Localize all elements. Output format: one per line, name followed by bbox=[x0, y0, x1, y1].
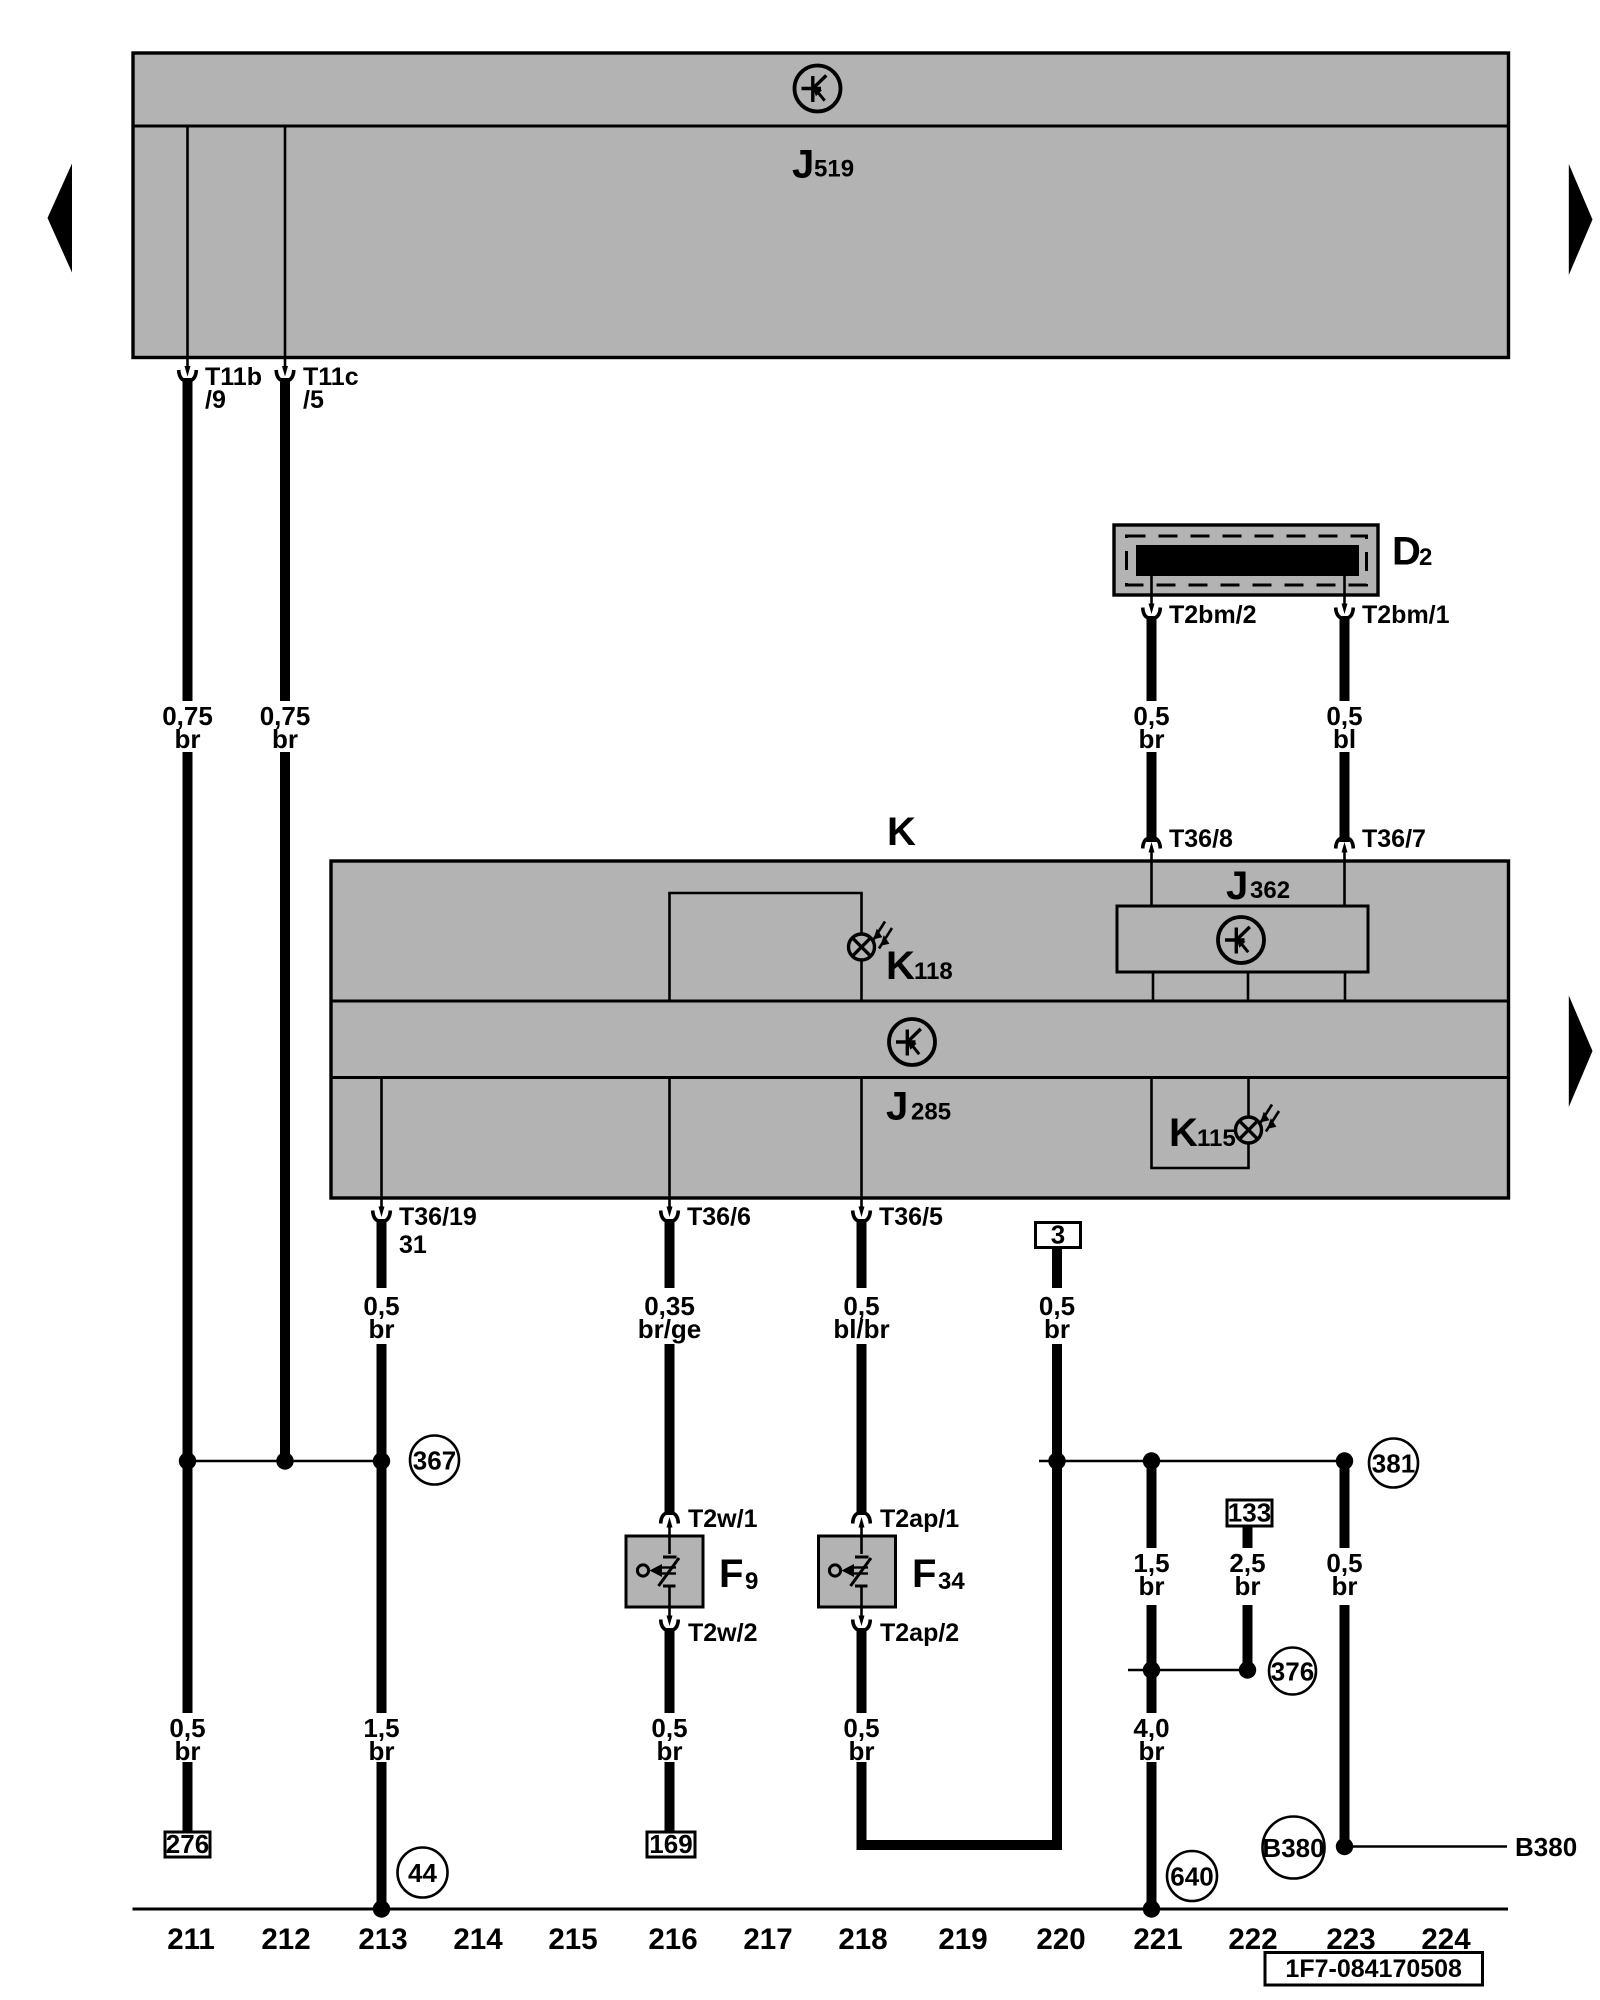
ground designation box 276 bbox=[165, 1829, 210, 1859]
svg-text:211: 211 bbox=[167, 1923, 215, 1956]
junction circle 367 bbox=[410, 1436, 459, 1485]
svg-text:367: 367 bbox=[413, 1446, 456, 1476]
label K115 bbox=[1169, 1111, 1236, 1155]
svg-text:T2w/2: T2w/2 bbox=[688, 1619, 757, 1647]
pin T2ap/1 bbox=[853, 1505, 960, 1536]
wire 0,5 bl/br track 218 bbox=[833, 1219, 889, 1515]
control unit box J519 (onboard supply control unit) bbox=[133, 53, 1509, 358]
svg-text:br: br bbox=[1139, 1571, 1165, 1601]
svg-text:br: br bbox=[369, 1314, 395, 1344]
svg-text:T36/5: T36/5 bbox=[879, 1203, 943, 1231]
svg-text:br/ge: br/ge bbox=[638, 1314, 702, 1344]
svg-text:362: 362 bbox=[1250, 877, 1290, 904]
wire 0,5 br track 216 lower bbox=[651, 1628, 687, 1832]
wire T11b/9 inside J519 bbox=[186, 126, 189, 358]
svg-text:220: 220 bbox=[1036, 1923, 1085, 1956]
svg-text:169: 169 bbox=[649, 1829, 692, 1859]
wire 1,5 br track 221 bbox=[1133, 1461, 1169, 1909]
instrument cluster box K / J285 bbox=[331, 861, 1509, 1198]
svg-text:br: br bbox=[1139, 724, 1165, 754]
pin T11b/9 bbox=[179, 358, 262, 415]
svg-text:215: 215 bbox=[548, 1923, 597, 1956]
svg-text:J: J bbox=[1226, 864, 1248, 908]
diagram number box 1F7-084170508 bbox=[1265, 1953, 1483, 1986]
svg-text:276: 276 bbox=[166, 1829, 209, 1859]
bus connection symbol middle band bbox=[889, 1019, 935, 1065]
control unit in dash panel insert J362 bbox=[1117, 861, 1368, 1001]
handbrake warning lamp K115 bbox=[1236, 1105, 1280, 1144]
svg-text:bl: bl bbox=[1333, 724, 1356, 754]
wire 0,35 br/ge track 216 bbox=[638, 1219, 702, 1515]
warning lamp circuit K118 bbox=[668, 893, 863, 1001]
wire 0,5 br track 218 lower bbox=[843, 1628, 879, 1766]
wire 0,75 br track 212 upper bbox=[260, 378, 311, 1461]
ground circle B380 bbox=[1262, 1817, 1324, 1879]
svg-text:br: br bbox=[657, 1736, 683, 1766]
svg-text:T36/6: T36/6 bbox=[687, 1203, 751, 1231]
bus connection symbol in J519 bbox=[795, 66, 841, 112]
handbrake warning switch F34 bbox=[819, 1536, 896, 1607]
svg-text:B380: B380 bbox=[1515, 1832, 1577, 1862]
junction row left (367) bbox=[179, 1452, 390, 1469]
svg-text:381: 381 bbox=[1372, 1449, 1415, 1479]
svg-text:118: 118 bbox=[914, 958, 953, 985]
earth circle 640 bbox=[1167, 1851, 1217, 1901]
svg-text:44: 44 bbox=[408, 1858, 437, 1888]
junction circle 376 bbox=[1269, 1648, 1316, 1695]
svg-text:214: 214 bbox=[453, 1923, 503, 1956]
svg-text:br: br bbox=[369, 1736, 395, 1766]
earth circle 44 bbox=[398, 1848, 448, 1898]
svg-text:216: 216 bbox=[648, 1923, 697, 1956]
wire 0,5 br track 220 bbox=[862, 1248, 1076, 1846]
wire 0,75 br track 211 upper bbox=[162, 378, 213, 1713]
svg-text:br: br bbox=[1044, 1314, 1070, 1344]
label J285 bbox=[886, 1085, 951, 1129]
pin T36/8 bbox=[1143, 825, 1233, 861]
svg-text:T2ap/2: T2ap/2 bbox=[880, 1619, 959, 1647]
label K118 bbox=[886, 944, 953, 988]
wire T36/5 inside K bbox=[860, 1078, 863, 1199]
svg-text:T2ap/1: T2ap/1 bbox=[880, 1505, 959, 1533]
svg-text:133: 133 bbox=[1228, 1498, 1271, 1528]
label J519 bbox=[792, 143, 854, 187]
svg-text:1F7-084170508: 1F7-084170508 bbox=[1285, 1955, 1462, 1983]
label J362 bbox=[1226, 864, 1290, 908]
pin T2w/1 bbox=[661, 1505, 758, 1536]
wire T36/19 inside K bbox=[380, 1078, 383, 1199]
label F9 bbox=[719, 1552, 758, 1596]
svg-text:3: 3 bbox=[1051, 1220, 1065, 1250]
svg-text:br: br bbox=[1139, 1736, 1165, 1766]
svg-text:K: K bbox=[887, 810, 916, 854]
display unit D2 bbox=[1114, 525, 1378, 595]
pin T2bm/2 bbox=[1143, 595, 1257, 629]
svg-text:br: br bbox=[1235, 1571, 1261, 1601]
pin T2w/2 bbox=[661, 1607, 758, 1647]
svg-text:640: 640 bbox=[1170, 1862, 1213, 1892]
svg-text:J: J bbox=[792, 143, 814, 187]
svg-text:F: F bbox=[719, 1552, 743, 1596]
pin T36/19 / terminal 31 bbox=[373, 1198, 477, 1259]
svg-text:br: br bbox=[175, 1736, 201, 1766]
pin T2bm/1 bbox=[1336, 595, 1450, 629]
svg-text:bl/br: bl/br bbox=[833, 1314, 889, 1344]
handbrake warning switch F9 bbox=[626, 1536, 703, 1607]
wire 0,5 br from D2 bbox=[1133, 616, 1169, 842]
pin T2ap/2 bbox=[853, 1607, 960, 1647]
svg-text:221: 221 bbox=[1133, 1923, 1182, 1956]
wire 0,5 bl from D2 bbox=[1326, 616, 1362, 842]
svg-text:T36/7: T36/7 bbox=[1362, 825, 1426, 853]
junction row lower (376) bbox=[1128, 1661, 1256, 1678]
right direction arrow (top) bbox=[1569, 164, 1593, 275]
svg-text:T2w/1: T2w/1 bbox=[688, 1505, 758, 1533]
svg-text:D: D bbox=[1392, 530, 1421, 574]
svg-text:519: 519 bbox=[814, 156, 854, 183]
bottom earth rail bbox=[133, 1900, 1509, 1917]
svg-text:2: 2 bbox=[1419, 544, 1432, 571]
label D2 bbox=[1392, 530, 1432, 574]
handbrake indicator circuit K115 bbox=[1150, 1078, 1250, 1169]
svg-text:br: br bbox=[849, 1736, 875, 1766]
label F34 bbox=[912, 1552, 965, 1596]
svg-text:T36/19: T36/19 bbox=[399, 1203, 477, 1231]
wire 0,5 br track 213 bbox=[363, 1219, 399, 1909]
svg-text:/5: /5 bbox=[303, 386, 324, 414]
bus connection symbol in J362 bbox=[1218, 917, 1264, 963]
junction row right (381) bbox=[1039, 1452, 1353, 1469]
svg-text:K: K bbox=[1169, 1111, 1198, 1155]
pin T11c/5 bbox=[276, 358, 358, 415]
svg-text:217: 217 bbox=[743, 1923, 792, 1956]
svg-text:br: br bbox=[272, 724, 298, 754]
track numbers 211-224 bbox=[167, 1923, 1471, 1956]
svg-text:9: 9 bbox=[745, 1568, 758, 1595]
wire T11c/5 inside J519 bbox=[284, 126, 287, 358]
svg-text:34: 34 bbox=[938, 1568, 965, 1595]
pin T36/5 bbox=[853, 1198, 943, 1231]
svg-text:br: br bbox=[1332, 1571, 1358, 1601]
ground designation box 169 bbox=[647, 1829, 695, 1859]
svg-text:J: J bbox=[886, 1085, 908, 1129]
svg-text:F: F bbox=[912, 1552, 936, 1596]
svg-text:/9: /9 bbox=[205, 386, 226, 414]
svg-text:T36/8: T36/8 bbox=[1169, 825, 1233, 853]
svg-text:285: 285 bbox=[911, 1099, 951, 1126]
ground connection B380 bbox=[1336, 1832, 1577, 1862]
svg-text:213: 213 bbox=[358, 1923, 407, 1956]
svg-text:B380: B380 bbox=[1262, 1833, 1324, 1863]
svg-text:31: 31 bbox=[399, 1231, 427, 1259]
ground designation box 3 bbox=[1036, 1220, 1081, 1250]
svg-text:219: 219 bbox=[938, 1923, 987, 1956]
wire T36/6 inside K bbox=[668, 1078, 671, 1199]
wire 0,5 br track 211 lower label bbox=[169, 1713, 205, 1832]
pin T36/7 bbox=[1336, 825, 1426, 861]
svg-text:K: K bbox=[886, 944, 915, 988]
svg-text:T2bm/1: T2bm/1 bbox=[1362, 601, 1450, 629]
brake system warning lamp K118 bbox=[849, 922, 893, 961]
svg-text:br: br bbox=[175, 724, 201, 754]
svg-text:218: 218 bbox=[838, 1923, 887, 1956]
wire 2,5 br track 222 bbox=[1229, 1526, 1265, 1670]
wiring designation box 133 bbox=[1227, 1498, 1272, 1528]
svg-text:212: 212 bbox=[261, 1923, 310, 1956]
right direction arrow (middle) bbox=[1569, 996, 1593, 1108]
junction circle 381 bbox=[1369, 1439, 1418, 1488]
svg-text:115: 115 bbox=[1197, 1125, 1236, 1152]
wire 0,5 br track 223 bbox=[1326, 1461, 1362, 1847]
svg-text:376: 376 bbox=[1271, 1657, 1314, 1687]
pin T36/6 bbox=[661, 1198, 751, 1231]
left direction arrow bbox=[48, 164, 73, 273]
svg-text:T2bm/2: T2bm/2 bbox=[1169, 601, 1257, 629]
